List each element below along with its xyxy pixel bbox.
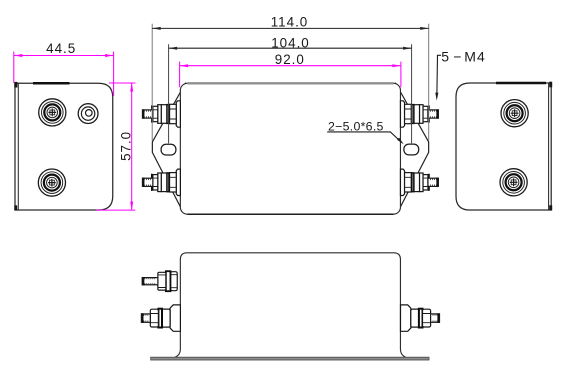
svg-text:104.0: 104.0	[271, 36, 310, 51]
right slot 5.0x6.5	[404, 144, 419, 155]
right view corner marks	[549, 82, 552, 88]
left slot 5.0x6.5	[161, 144, 176, 155]
terminal upper-left (long stud)	[142, 271, 177, 291]
left view corner marks	[14, 82, 17, 88]
base mounting plate	[151, 357, 429, 360]
dimension 104.0	[169, 44, 412, 143]
dimension 92.0	[180, 62, 401, 88]
terminal top-left	[142, 101, 180, 127]
dimension 114.0	[152, 24, 429, 141]
svg-text:57.0: 57.0	[118, 131, 133, 161]
svg-text:114.0: 114.0	[271, 14, 309, 29]
left view screw top-left	[39, 99, 66, 126]
terminal lower-left with boss	[141, 305, 180, 331]
right view flange inner line	[548, 83, 550, 210]
left view top edge dark segment	[33, 82, 70, 85]
svg-text:M4: M4	[464, 48, 485, 64]
dimension 57.0	[96, 83, 136, 210]
terminal right with boss	[401, 305, 440, 331]
left view screw top-right small	[78, 104, 98, 124]
filter body	[180, 83, 400, 214]
terminal top-right	[400, 101, 438, 127]
svg-text:−: −	[453, 48, 461, 64]
right view screw bottom	[500, 169, 527, 196]
terminal bottom-left	[142, 169, 180, 195]
left view screw bottom	[38, 169, 65, 196]
left mounting flange	[152, 84, 185, 210]
right view top edge dark segment	[496, 82, 546, 85]
bottom view body	[175, 253, 406, 358]
terminal bottom-right	[400, 169, 438, 195]
right view plate	[456, 83, 551, 210]
body top edge gray	[187, 82, 393, 84]
left view plate	[15, 83, 113, 210]
right view screw top	[501, 100, 528, 127]
body bottom edge	[187, 213, 393, 215]
right mounting flange	[396, 84, 429, 210]
left view flange inner line	[17, 83, 19, 210]
svg-text:5: 5	[441, 48, 449, 64]
dimension 44.5	[14, 52, 114, 97]
svg-text:44.5: 44.5	[46, 41, 76, 56]
svg-text:92.0: 92.0	[275, 52, 305, 67]
